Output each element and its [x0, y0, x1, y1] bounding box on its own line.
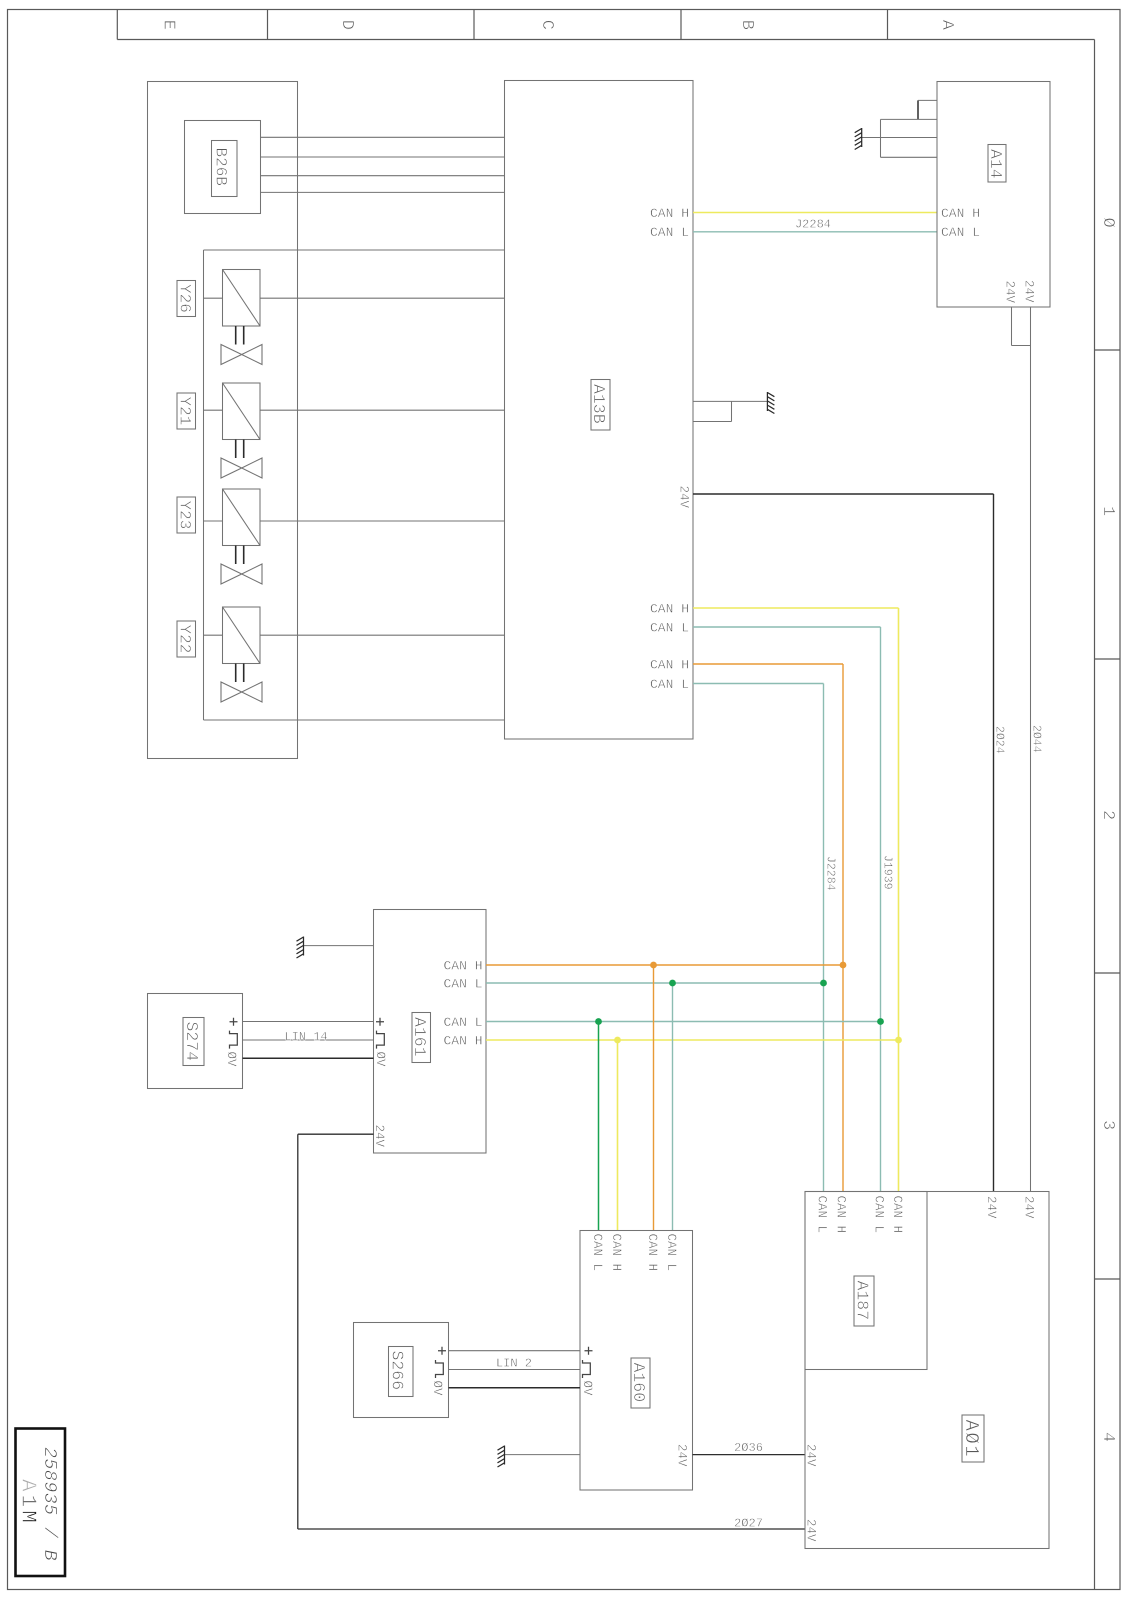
- svg-text:CAN L: CAN L: [815, 1196, 829, 1234]
- wire CAN L J2284 (teal) A13B to A14: [693, 231, 937, 233]
- A161 pin label +: [376, 1018, 384, 1026]
- svg-text:D: D: [337, 20, 356, 30]
- svg-text:AØ1: AØ1: [960, 1420, 982, 1459]
- svg-text:24V: 24V: [1022, 1196, 1036, 1219]
- svg-text:S274: S274: [182, 1022, 201, 1062]
- svg-text:Y26: Y26: [176, 284, 194, 313]
- svg-text:2: 2: [1098, 810, 1117, 820]
- wire CAN H yellow from A161: [486, 1039, 899, 1041]
- valve Y26 stem: [235, 326, 237, 345]
- svg-text:CAN L: CAN L: [650, 225, 689, 240]
- title block: [16, 1429, 66, 1577]
- svg-text:24V: 24V: [804, 1519, 818, 1542]
- valve Y22 stem: [235, 664, 237, 683]
- svg-text:CAN L: CAN L: [664, 1234, 678, 1272]
- svg-text:J2284: J2284: [824, 856, 837, 891]
- solenoid valve Y23: [177, 497, 196, 533]
- valve Y23 stem: [235, 546, 237, 565]
- svg-text:B: B: [737, 20, 756, 30]
- ECU A160: [580, 1231, 693, 1491]
- wire Y22 coil to A13B: [204, 634, 223, 636]
- svg-text:B26B: B26B: [212, 148, 230, 186]
- solenoid valve Y26: [177, 281, 196, 317]
- svg-text:S266: S266: [388, 1351, 407, 1391]
- svg-text:A13B: A13B: [589, 384, 608, 424]
- svg-text:CAN H: CAN H: [650, 206, 689, 221]
- A14 connector small box: [917, 100, 919, 119]
- svg-text:C: C: [537, 20, 556, 30]
- wire CAN H (yellow bus): [693, 607, 899, 609]
- valve group inner box: [204, 249, 505, 251]
- wire 2044 A14 24V down to A01: [1030, 307, 1032, 1192]
- svg-text:CAN H: CAN H: [941, 206, 980, 221]
- valve Y21 body symbol: [221, 458, 262, 478]
- svg-text:A14: A14: [986, 149, 1005, 179]
- svg-text:J1939: J1939: [881, 855, 894, 890]
- S266 pin pulse symbol: [436, 1360, 444, 1378]
- svg-text:24V: 24V: [372, 1125, 386, 1148]
- solenoid valve Y22: [177, 621, 196, 657]
- wire LIN 14 0V: [243, 1057, 374, 1059]
- A160 pin label +: [585, 1347, 593, 1355]
- ground (chassis) at A161: [297, 937, 304, 959]
- svg-text:CAN L: CAN L: [650, 677, 689, 692]
- valve Y23 body symbol: [221, 564, 262, 584]
- wire CAN L teal from A161: [486, 982, 824, 984]
- valve Y22 body symbol: [221, 682, 262, 702]
- S266 pin label +: [438, 1347, 446, 1355]
- wire Y21 coil to A13B: [204, 409, 223, 411]
- svg-text:CAN H: CAN H: [890, 1196, 904, 1234]
- ECU A161: [374, 910, 487, 1154]
- ECU A13B: [505, 81, 694, 740]
- svg-text:24V: 24V: [984, 1196, 998, 1219]
- svg-text:J2284: J2284: [795, 217, 831, 231]
- svg-text:Ø: Ø: [1098, 218, 1117, 228]
- wire LIN 14 signal: [243, 1039, 374, 1041]
- A13B connector sub-box: [693, 400, 767, 402]
- wire CAN L teal lower from A161: [486, 1021, 881, 1023]
- wire 24V 2024 (black) from A13B: [693, 493, 994, 495]
- gateway A187: [805, 1192, 927, 1370]
- wire A161 to ground: [304, 945, 374, 947]
- svg-text:24V: 24V: [804, 1444, 818, 1467]
- svg-text:258935 / B: 258935 / B: [39, 1447, 60, 1561]
- wire A160 to ground: [505, 1454, 580, 1456]
- S274 pin label +: [230, 1018, 238, 1026]
- solenoid valve Y21: [177, 393, 196, 429]
- svg-text:2Ø36: 2Ø36: [734, 1441, 763, 1455]
- wire Y23 coil to A13B: [204, 520, 223, 522]
- svg-text:CAN L: CAN L: [941, 225, 980, 240]
- ground (chassis) at A13B: [767, 392, 774, 414]
- wire 2036 A160 24V to A01: [693, 1454, 806, 1456]
- svg-text:LIN 2: LIN 2: [496, 1357, 532, 1371]
- A14 connector box: [881, 118, 938, 120]
- svg-text:CAN L: CAN L: [872, 1196, 886, 1234]
- svg-text:CAN L: CAN L: [443, 976, 482, 991]
- svg-text:A: A: [937, 20, 956, 31]
- wire LIN 2 0V: [449, 1387, 581, 1389]
- svg-text:Y22: Y22: [176, 625, 194, 654]
- harness container around B26B and valves: [148, 82, 298, 759]
- svg-text:A160: A160: [629, 1363, 648, 1403]
- svg-text:2Ø44: 2Ø44: [1030, 725, 1043, 753]
- svg-text:Y21: Y21: [176, 397, 194, 426]
- wire Y26 coil to A13B: [204, 297, 223, 299]
- svg-text:CAN H: CAN H: [834, 1196, 848, 1234]
- svg-text:24V: 24V: [675, 1444, 689, 1467]
- A161 pin pulse symbol: [377, 1031, 385, 1049]
- svg-text:A161: A161: [410, 1017, 429, 1057]
- wire CAN H (orange bus): [693, 663, 843, 665]
- wire CAN L (teal bus): [693, 626, 881, 628]
- valve Y21 stem: [235, 440, 237, 459]
- ground (chassis) at A160: [498, 1446, 505, 1468]
- wire CAN H orange drop to A160: [653, 965, 655, 1231]
- svg-text:CAN H: CAN H: [443, 958, 482, 973]
- column letter band (rows E D C B A): [117, 39, 1094, 41]
- svg-text:CAN H: CAN H: [443, 1033, 482, 1048]
- wire A14 24V pins join: [1011, 307, 1013, 346]
- wire CAN H yellow drop to A160: [617, 1040, 619, 1231]
- S274 pin pulse symbol: [230, 1031, 238, 1049]
- svg-text:ØV: ØV: [373, 1052, 387, 1068]
- chassis node A01: [805, 1192, 1049, 1549]
- svg-text:ØV: ØV: [580, 1381, 594, 1397]
- svg-text:2Ø24: 2Ø24: [993, 726, 1006, 754]
- wire CAN L teal drop to A160: [672, 983, 674, 1231]
- valve Y26 body symbol: [221, 345, 262, 365]
- wire A14 to ground: [862, 137, 937, 139]
- wire 2027 A161 24V to A01: [298, 1133, 374, 1135]
- svg-text:24V: 24V: [677, 486, 691, 509]
- svg-text:3: 3: [1098, 1120, 1117, 1130]
- wire LIN 14 +: [243, 1021, 374, 1023]
- wires B26B to A13B: [261, 136, 505, 138]
- svg-text:2Ø27: 2Ø27: [734, 1517, 763, 1531]
- svg-text:CAN H: CAN H: [650, 601, 689, 616]
- wire LIN 2 signal: [449, 1369, 581, 1371]
- svg-text:CAN H: CAN H: [609, 1234, 623, 1272]
- svg-text:24V: 24V: [1022, 280, 1036, 303]
- wire CAN H orange from A161: [486, 964, 843, 966]
- svg-text:CAN L: CAN L: [443, 1015, 482, 1030]
- sensor B26B: [185, 121, 261, 214]
- wire CAN L (teal bus 2): [693, 683, 824, 685]
- junction dots: [650, 962, 657, 969]
- svg-text:CAN H: CAN H: [650, 657, 689, 672]
- svg-text:CAN H: CAN H: [645, 1234, 659, 1272]
- row number band (cols 0..4): [1094, 40, 1096, 1590]
- svg-text:LIN 14: LIN 14: [284, 1030, 327, 1044]
- svg-text:A1M: A1M: [16, 1479, 39, 1526]
- svg-text:A187: A187: [853, 1281, 872, 1321]
- svg-text:CAN L: CAN L: [650, 620, 689, 635]
- ground (chassis) at A14: [855, 128, 862, 150]
- svg-text:Y23: Y23: [176, 501, 194, 530]
- svg-text:ØV: ØV: [224, 1052, 238, 1068]
- sensor S266: [354, 1323, 449, 1418]
- svg-text:24V: 24V: [1003, 281, 1017, 304]
- svg-text:4: 4: [1098, 1432, 1117, 1442]
- svg-text:ØV: ØV: [430, 1381, 444, 1397]
- A160 pin pulse symbol: [583, 1360, 591, 1378]
- sensor S274: [148, 994, 243, 1089]
- wire LIN 2 +: [449, 1350, 581, 1352]
- wire CAN H J2284 (yellow) A13B to A14: [693, 212, 937, 214]
- ECU A14: [937, 82, 1050, 308]
- wire CAN L green drop to A160: [598, 1022, 600, 1231]
- svg-text:1: 1: [1098, 506, 1117, 516]
- svg-text:E: E: [159, 20, 178, 30]
- svg-text:CAN L: CAN L: [590, 1234, 604, 1272]
